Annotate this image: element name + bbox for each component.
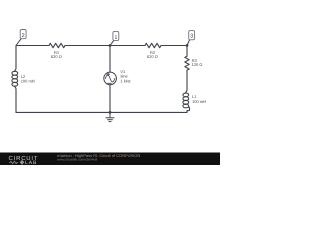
footer logo zigzag bbox=[9, 161, 18, 164]
inductor L2 bbox=[12, 71, 18, 75]
wire middle lower bbox=[109, 85, 111, 113]
svg-text:120 Ω: 120 Ω bbox=[192, 62, 203, 67]
node 2 callout bbox=[16, 30, 26, 46]
node junction dot top-right bbox=[186, 44, 189, 47]
svg-text:620 Ω: 620 Ω bbox=[147, 54, 158, 59]
node junction dot top-middle bbox=[109, 44, 112, 47]
svg-text:620 Ω: 620 Ω bbox=[51, 54, 62, 59]
source V1 bbox=[104, 72, 117, 85]
inductor L1 bbox=[183, 93, 189, 97]
footer logo diamond bbox=[20, 160, 25, 165]
wire right branch middle bbox=[186, 70, 187, 93]
node 3 callout bbox=[187, 31, 195, 46]
wire middle upper bbox=[109, 46, 111, 73]
wire top-left segment bbox=[16, 45, 49, 47]
svg-text:100 mH: 100 mH bbox=[21, 79, 35, 84]
resistor R2 bbox=[145, 43, 161, 47]
svg-text:1 kHz: 1 kHz bbox=[120, 78, 130, 83]
footer bar bbox=[0, 153, 220, 166]
svg-text:2: 2 bbox=[22, 33, 25, 39]
wire right branch upper bbox=[186, 46, 188, 57]
node junction dot bottom-middle bbox=[109, 111, 112, 114]
wire left branch lower bbox=[15, 86, 16, 112]
wire bottom bbox=[16, 111, 187, 113]
node 1 callout bbox=[110, 31, 119, 45]
wire right branch lower bbox=[187, 107, 190, 113]
svg-text:3: 3 bbox=[190, 34, 193, 40]
svg-text:1: 1 bbox=[114, 35, 117, 41]
labels bbox=[21, 50, 206, 104]
svg-text:www.circuitlab.com/c6mt4u8: www.circuitlab.com/c6mt4u8 bbox=[57, 157, 97, 161]
resistor R3 bbox=[185, 56, 189, 70]
wire top-middle segment bbox=[65, 45, 145, 47]
svg-text:LAB: LAB bbox=[25, 160, 37, 165]
resistor R1 bbox=[49, 43, 65, 47]
svg-text:100 mH: 100 mH bbox=[192, 99, 206, 104]
wire left branch upper bbox=[15, 46, 16, 72]
wire top-right segment bbox=[161, 45, 187, 47]
ground bbox=[106, 112, 115, 121]
